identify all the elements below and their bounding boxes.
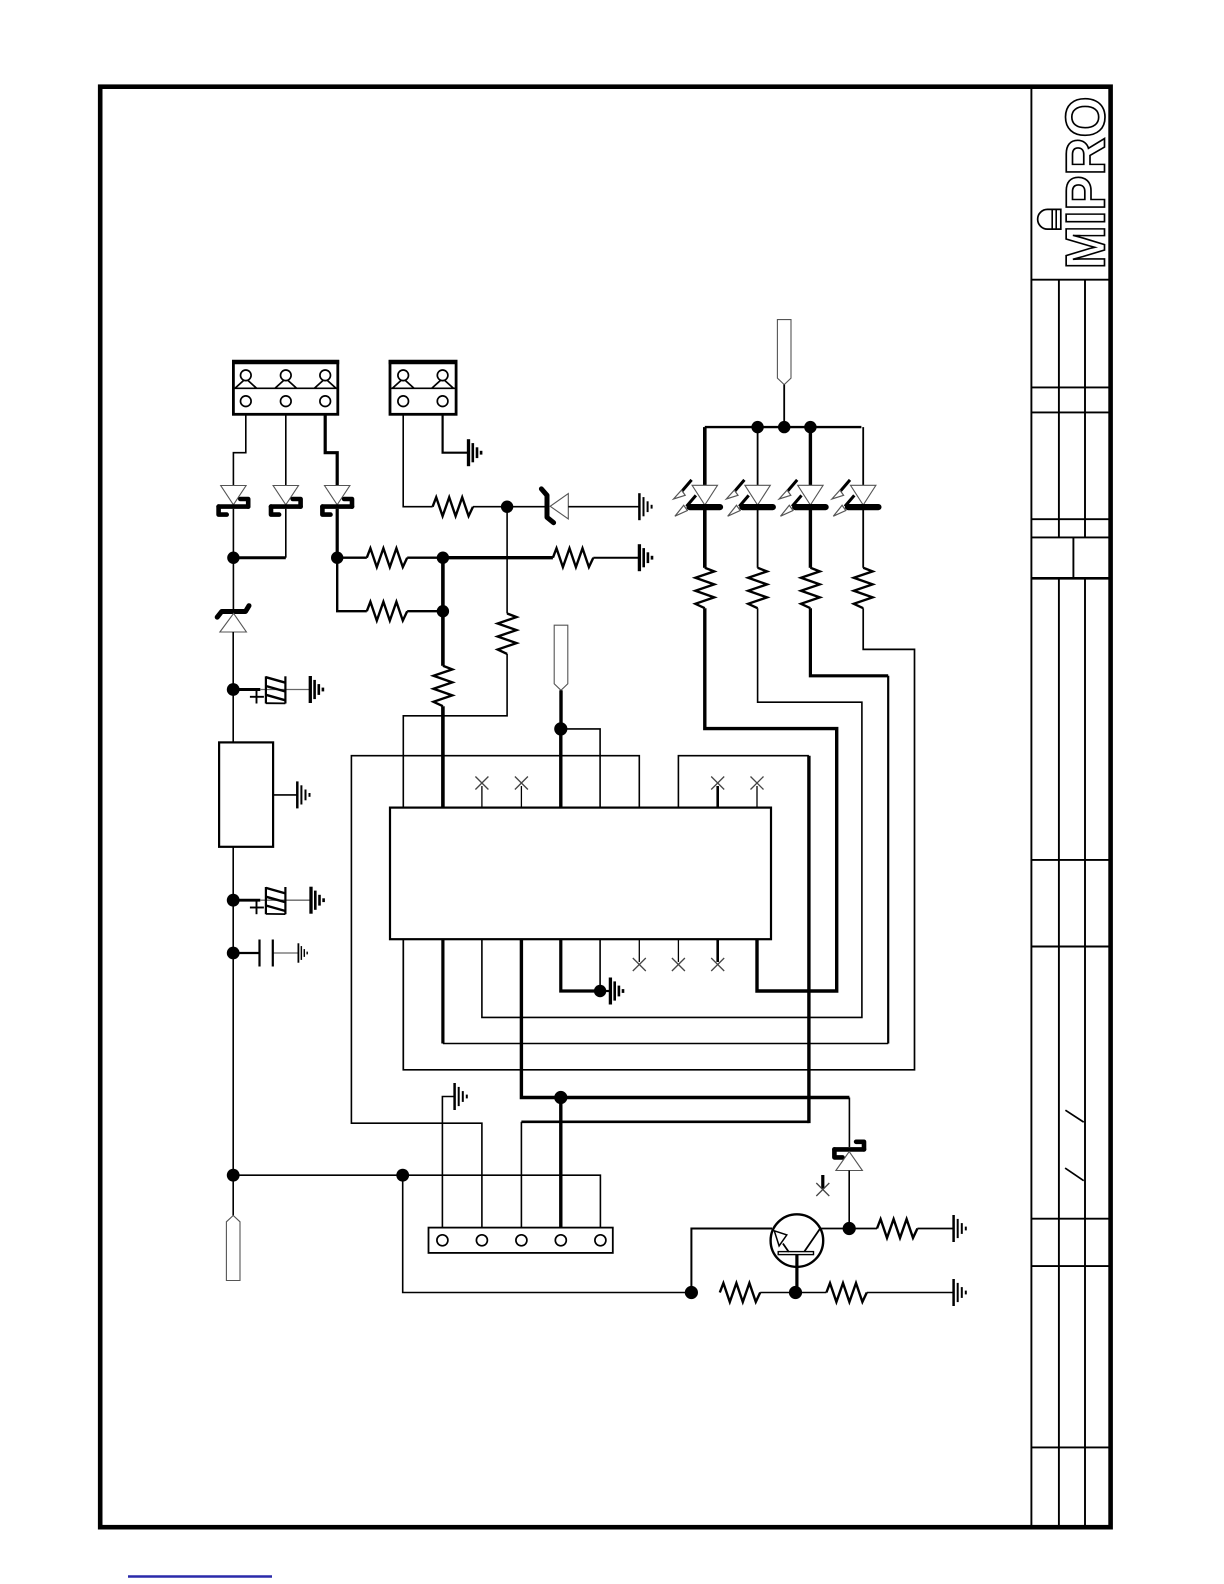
no-connect pin bottom 639 (638, 939, 640, 962)
wire R13 to ground (917, 1228, 953, 1230)
net flag VLED (777, 320, 791, 385)
ground after R3 (639, 544, 652, 571)
junction left rail / bottom row (227, 1169, 240, 1182)
wire J1 pin1 to D1 (233, 414, 245, 485)
ground C1 (310, 676, 323, 703)
no-connect pin bottom 678 (677, 939, 679, 962)
no-connect pin top 3 (481, 786, 483, 808)
resistor R2 (367, 602, 407, 621)
capacitor C2 (polarized) (233, 887, 311, 914)
capacitor C3 (233, 940, 298, 967)
MIPRO logo (1038, 97, 1117, 270)
diode D1 (schottky) (219, 486, 249, 515)
wire bus to LED3 (809, 427, 812, 485)
wire IC pin 8 link (right loop to connector pin 3) (678, 756, 809, 808)
wire R6 to IC pin 1 (403, 654, 507, 808)
wire R12 to ground (867, 1292, 954, 1294)
wire IC pin 7 link (left loop to connector pin 2) (351, 756, 639, 1228)
junction bottom row (396, 1169, 409, 1182)
wire zener D6 branch down (848, 1098, 850, 1148)
wire J1 pin2 to D2 (285, 414, 287, 485)
IC U1 (390, 808, 771, 940)
no-connect pin bottom 717 (716, 939, 719, 962)
wire LED3 net vertical (887, 676, 889, 1044)
wire to zener branch (561, 1096, 850, 1099)
wire J1 pin3 to D3 (325, 414, 337, 485)
resistor R5 (433, 497, 473, 516)
resistor R3 (553, 548, 593, 567)
wire R11 to emitter junction (760, 1292, 795, 1294)
wire junction2 down to R4 (441, 611, 445, 666)
wire bus to LED2 (757, 427, 759, 485)
no-connect pin top 4 (520, 786, 522, 808)
wire row to R1 (337, 557, 367, 559)
wire R5 to node (473, 506, 507, 508)
junction at D1/D2 (227, 552, 239, 564)
wire LED1 to R7 (703, 509, 707, 568)
wire R10 down-right to IC pin 1 bottom (403, 608, 914, 1070)
transistor Q1 (771, 1214, 824, 1267)
wire bottom row to connector pin 5 (233, 1175, 600, 1227)
title block (1031, 87, 1110, 1528)
junction emitter (789, 1286, 802, 1299)
wire D2 cathode down (285, 509, 287, 558)
junction C3 (227, 947, 240, 960)
resistor R6 (vertical) (498, 614, 517, 654)
wire to gnd symbol (600, 990, 610, 992)
wire junction down to connector pin 4 (559, 1098, 562, 1228)
svg-text:MIPRO: MIPRO (1054, 97, 1117, 270)
ground C2 (311, 887, 324, 914)
no-connect pin top 9 (716, 786, 719, 808)
ground U2 (297, 781, 309, 808)
wire D1 cathode down (232, 509, 234, 558)
junction base rail (685, 1286, 698, 1299)
junction2 (437, 605, 449, 617)
wire Z1 to C1 node (232, 632, 234, 742)
no-connect stub near D6 (821, 1175, 824, 1189)
wire bus to LED4 (862, 427, 864, 485)
junction bus/LED2 (751, 421, 763, 433)
connector J1 (3-pin screw terminal) (232, 362, 339, 415)
wire junction down to base rail (403, 1175, 692, 1292)
net flag VCC (middle) (554, 625, 568, 690)
wire vertical right loop (807, 756, 810, 1123)
wire LED4 to R10 (862, 509, 864, 568)
wire to IC pin (LED3 net) (443, 1043, 888, 1045)
sheet border frame (100, 87, 1110, 1528)
wire flag to LED bus (783, 385, 785, 428)
wire D2 to D1 junction (233, 556, 285, 559)
resistor R1 (367, 548, 407, 567)
wire IC bottom pin 2 (441, 939, 444, 1043)
wire node to D4 (507, 506, 547, 508)
wire into connector pin 3 (520, 1122, 522, 1228)
wire R7 down-right (to IC pin 20) (705, 608, 837, 991)
wire junction to junction2 vertical (441, 558, 445, 612)
wire R4 to IC pin (441, 706, 445, 807)
LED2 (726, 480, 773, 516)
wire LED3 to R9 (809, 509, 812, 568)
regulator U2 (219, 742, 273, 846)
wire right loop horizontal to pin 3 (521, 1120, 809, 1123)
ground after D4 (639, 493, 651, 520)
diode D2 (schottky) (271, 486, 301, 515)
no-connect pin top 10 (756, 786, 758, 808)
ground R13 (954, 1215, 966, 1242)
wire D3 cathode down (336, 509, 339, 558)
wire IC pin gnd stub (599, 939, 601, 991)
wire collector to R13 (849, 1228, 877, 1230)
wire R9 jog right (810, 608, 888, 676)
wire Q1 collector to node (820, 1228, 849, 1230)
ground IC (610, 978, 623, 1005)
node R5/D4 (501, 501, 513, 513)
wire node down to R6 (506, 507, 508, 614)
junction C1 (227, 683, 240, 696)
junction at D3 (331, 552, 343, 564)
junction collector (843, 1222, 856, 1235)
junction pin4 link (554, 1091, 567, 1104)
net flag bottom (pointing up) (226, 1216, 240, 1281)
capacitor C1 (polarized) (233, 676, 310, 703)
wire J2 pin2 to ground (443, 414, 469, 452)
diode D6 (schottky, cathode up) (834, 1142, 864, 1171)
wire junction to R3 (443, 556, 553, 559)
LED bus wire (705, 426, 862, 428)
resistor R7 (vertical) (695, 568, 714, 608)
ground connector pin1 (455, 1083, 467, 1110)
resistor R12 (826, 1283, 866, 1302)
wire Q1 base left (691, 1229, 772, 1293)
wire R8 down-right (to IC pin) (482, 608, 862, 1017)
LED3 (779, 480, 826, 516)
wire IC ground pins (561, 939, 600, 991)
resistor R13 (877, 1219, 917, 1238)
resistor R10 (vertical) (854, 568, 873, 608)
zener Z1 (cathode up) (217, 606, 249, 632)
LED1 (674, 480, 721, 516)
wire IC pin 522 down (VCC link) (521, 939, 560, 1097)
junction bus/flag (778, 421, 790, 433)
wire LED2 to R8 (757, 509, 759, 568)
junction node R1/R2 (437, 552, 449, 564)
wire emitter junction to R12 (796, 1292, 827, 1294)
wire U2 out down (232, 847, 234, 1216)
wire junction branch right to IC pin (561, 729, 600, 808)
wire junction to IC pin (thick) (559, 729, 562, 808)
ground R12 (954, 1279, 966, 1306)
wire D6 anode to collector node (848, 1171, 850, 1229)
connector J3 (5-pin) (429, 1228, 613, 1253)
wire gnd to connector pin 1 (442, 1097, 454, 1228)
wire Q1 emitter down (795, 1255, 798, 1293)
wire flag2 down to junction (559, 690, 562, 729)
wire R2 to junction2 (407, 610, 443, 612)
resistor R8 (vertical) (748, 568, 767, 608)
left rail: zener Z1 wire (232, 558, 234, 611)
junction C2 (227, 894, 240, 907)
wire U2 gnd pin (273, 794, 297, 796)
junction flag2 (554, 722, 567, 735)
wire bus to LED1 (703, 427, 707, 485)
resistor R11 (720, 1283, 760, 1302)
diode D3 (schottky) (322, 486, 352, 515)
resistor R9 (vertical) (801, 568, 820, 608)
wire J2 pin1 down (403, 414, 432, 506)
wire D4 to ground (568, 506, 639, 508)
diode D4 (zener, pointing left) (541, 489, 568, 523)
hyperlink underline bottom left (128, 1575, 272, 1578)
microphone icon (dot of the i) (1038, 209, 1061, 229)
wire R3 to ground (593, 557, 639, 559)
wire R1 to junction (407, 557, 443, 559)
junction IC gnd (594, 985, 606, 997)
connector J2 (2-pin screw terminal) (389, 362, 458, 415)
LED4 (832, 480, 879, 516)
ground J2 pin2 (469, 439, 482, 466)
resistor R4 (vertical) (434, 666, 453, 706)
junction bus/LED3 (804, 421, 816, 433)
ground C3 (298, 943, 307, 962)
wire row2 from D3 junction (337, 558, 367, 612)
